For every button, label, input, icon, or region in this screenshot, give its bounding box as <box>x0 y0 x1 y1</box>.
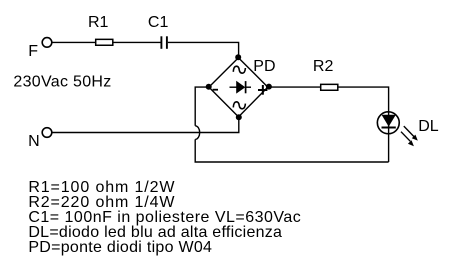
wire C1 to bridge top <box>168 42 239 57</box>
resistor R2 <box>321 84 338 90</box>
wire F to R1 <box>52 41 95 43</box>
diode inside bridge <box>230 81 252 93</box>
svg-text:C1: C1 <box>148 14 169 31</box>
wire N to bridge bottom <box>52 117 238 133</box>
svg-text:PD=ponte diodi tipo W04: PD=ponte diodi tipo W04 <box>28 239 212 256</box>
LED cathode bar <box>382 127 396 129</box>
ac tilde top <box>233 66 245 73</box>
resistor R1 <box>96 39 113 45</box>
LED wire through <box>388 112 390 162</box>
node right vertex <box>266 84 272 90</box>
node bottom vertex <box>236 114 242 120</box>
terminal F <box>42 38 52 48</box>
LED arrow 2 <box>401 132 414 147</box>
svg-text:DL: DL <box>418 118 439 135</box>
bottom rail wire <box>195 139 388 162</box>
LED triangle <box>382 115 395 126</box>
svg-text:PD: PD <box>253 58 275 75</box>
svg-text:N: N <box>28 133 40 150</box>
terminal N <box>42 128 52 138</box>
wire hop over N line <box>195 126 199 140</box>
svg-text:R2: R2 <box>313 58 334 75</box>
LED arrow 1 <box>404 126 418 141</box>
wire bridge right to R2 <box>268 86 320 88</box>
wire R1 to C1 <box>114 41 161 43</box>
minus sign <box>213 89 218 91</box>
node left vertex <box>206 84 212 90</box>
wire hop to bridge left <box>195 87 209 126</box>
bridge rectifier PD <box>209 58 268 117</box>
svg-text:F: F <box>28 43 38 60</box>
wire R2 to LED <box>339 87 389 112</box>
node top vertex <box>235 54 241 60</box>
ac tilde bottom <box>233 102 245 109</box>
plus sign <box>258 85 267 95</box>
svg-text:230Vac 50Hz: 230Vac 50Hz <box>13 74 111 91</box>
svg-text:R1: R1 <box>88 14 109 31</box>
capacitor C1 <box>161 36 167 49</box>
LED DL <box>377 112 399 134</box>
